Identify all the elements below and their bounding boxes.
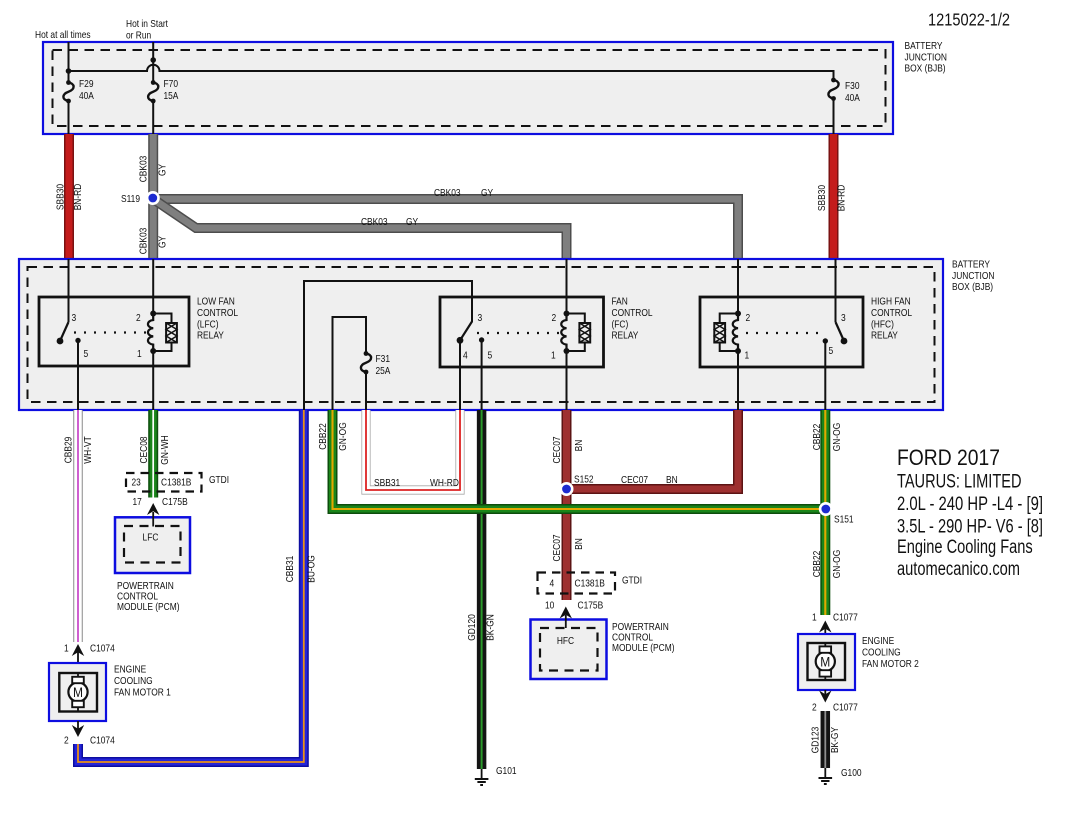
LFC actuation dotted line xyxy=(74,331,147,333)
svg-text:GD123: GD123 xyxy=(810,727,822,754)
wire: CBB22 branch to fuse F31 xyxy=(333,317,367,410)
cable SBB30 BN-RD left (F29 to LFC relay) xyxy=(64,134,74,259)
svg-text:GTDI: GTDI xyxy=(622,575,642,587)
wire: BJB internal to HFC pin 3 xyxy=(835,259,837,322)
svg-text:(HFC): (HFC) xyxy=(871,318,894,330)
wire: HFC pin1 to box edge xyxy=(737,351,739,410)
cable CBB22 GN-OG to fan motor 2 xyxy=(820,410,830,615)
fuse F70 15A xyxy=(148,80,158,103)
cable CBB31 BU-OG (FC relay to fan motor 1) xyxy=(78,410,304,762)
battery junction box 2 (BJB) outline xyxy=(19,259,943,410)
svg-text:WH-VT: WH-VT xyxy=(82,436,94,464)
svg-text:GN-OG: GN-OG xyxy=(337,422,349,451)
HFC switch arm pin3 xyxy=(836,322,845,341)
wire: arrow shaft to PCM LFC xyxy=(152,512,154,527)
svg-text:S119: S119 xyxy=(121,193,140,205)
svg-text:4: 4 xyxy=(550,578,555,590)
svg-text:MODULE (PCM): MODULE (PCM) xyxy=(612,642,675,654)
svg-text:2: 2 xyxy=(746,312,751,324)
svg-text:5: 5 xyxy=(829,345,834,357)
wire: HFC pin5 to box edge xyxy=(824,341,826,410)
wire: F31 to SBB31 out xyxy=(365,372,367,410)
svg-text:CEC07: CEC07 xyxy=(551,436,563,463)
svg-text:GN-WH: GN-WH xyxy=(159,435,171,464)
fan motor M1 (engine cooling fan motor 1) xyxy=(49,663,106,721)
svg-text:S151: S151 xyxy=(834,514,854,526)
svg-text:GD120: GD120 xyxy=(466,614,478,641)
svg-text:5: 5 xyxy=(488,350,493,362)
svg-text:LOW FAN: LOW FAN xyxy=(197,296,235,308)
HFC pin 5 terminal xyxy=(823,338,828,343)
svg-text:GY: GY xyxy=(406,216,418,228)
wire: motor1 to C1074 pin2 xyxy=(77,721,79,731)
svg-text:5: 5 xyxy=(84,348,89,360)
svg-text:WH-RD: WH-RD xyxy=(430,477,459,489)
svg-text:C1077: C1077 xyxy=(833,702,858,714)
connector C1381B dashed box (GTDI) left xyxy=(126,473,202,492)
svg-text:HIGH FAN: HIGH FAN xyxy=(871,296,911,308)
svg-text:40A: 40A xyxy=(845,92,860,104)
PCM LFC inner dashed box xyxy=(124,526,181,563)
wire: motor2 to C1077 pin2 xyxy=(824,690,826,697)
wire: BJB internal to LFC pin 3 xyxy=(68,259,70,322)
svg-text:CONTROL: CONTROL xyxy=(197,307,238,319)
svg-text:CBK03: CBK03 xyxy=(138,228,150,255)
cable CEC07 BN from HFC pin1 to S152 xyxy=(567,410,739,489)
svg-text:3.5L - 290 HP- V6 - [8]: 3.5L - 290 HP- V6 - [8] xyxy=(897,517,1043,538)
svg-text:Engine Cooling Fans: Engine Cooling Fans xyxy=(897,537,1033,558)
node: F70 feed junction xyxy=(150,57,156,63)
svg-text:40A: 40A xyxy=(79,90,94,102)
svg-text:FORD 2017: FORD 2017 xyxy=(897,445,1000,470)
wire: BJB internal to LFC pin 2 xyxy=(152,259,154,314)
svg-text:BU-OG: BU-OG xyxy=(306,555,318,583)
svg-text:RELAY: RELAY xyxy=(871,330,898,342)
svg-text:BATTERY: BATTERY xyxy=(952,259,990,271)
svg-text:COOLING: COOLING xyxy=(114,675,153,687)
svg-text:G100: G100 xyxy=(841,767,862,779)
svg-text:BN: BN xyxy=(573,538,585,550)
cable SBB30 BN-RD right (F30 to HFC relay) xyxy=(829,134,839,259)
svg-text:1215022-1/2: 1215022-1/2 xyxy=(928,10,1010,30)
wire: bus from F29 to F30 with hop over F70 xyxy=(69,65,834,80)
svg-text:10: 10 xyxy=(545,600,554,612)
LFC coil with resistor xyxy=(148,311,177,355)
splice S152 xyxy=(560,482,574,496)
svg-text:BN: BN xyxy=(666,474,678,486)
svg-text:1: 1 xyxy=(812,612,817,624)
svg-text:1: 1 xyxy=(745,350,750,362)
svg-text:BK-GY: BK-GY xyxy=(829,727,841,753)
wire: feed to fuse F29 xyxy=(68,42,70,83)
svg-text:FAN: FAN xyxy=(612,296,628,308)
svg-text:2: 2 xyxy=(812,702,817,714)
HFC switch contact xyxy=(841,338,848,345)
arrow into PCM (HFC) xyxy=(560,607,572,619)
ground G100 xyxy=(819,768,833,784)
svg-text:CEC07: CEC07 xyxy=(621,474,648,486)
svg-text:Hot in Start: Hot in Start xyxy=(126,18,168,30)
svg-text:F29: F29 xyxy=(79,78,94,90)
wire: Hot in Start feed to fuse F70 xyxy=(152,42,154,83)
svg-text:1: 1 xyxy=(137,348,142,360)
svg-text:Hot at all times: Hot at all times xyxy=(35,29,91,41)
svg-text:17: 17 xyxy=(133,496,142,508)
svg-text:GTDI: GTDI xyxy=(209,474,229,486)
svg-text:2: 2 xyxy=(64,735,69,747)
svg-text:C175B: C175B xyxy=(162,496,188,508)
LFC pin 5 terminal xyxy=(75,338,80,343)
svg-text:HFC: HFC xyxy=(557,635,575,647)
svg-text:CBB29: CBB29 xyxy=(63,437,75,464)
connector arrow C1074 pin2 xyxy=(72,725,84,737)
fuse F31 25A xyxy=(361,351,371,374)
svg-text:2: 2 xyxy=(136,312,141,324)
HFC actuation dotted line xyxy=(746,332,818,334)
svg-text:C1074: C1074 xyxy=(90,735,115,747)
fuse F30 40A xyxy=(828,78,838,101)
wire: LFC pin5 to box edge xyxy=(77,341,79,411)
svg-text:CEC07: CEC07 xyxy=(551,534,563,561)
relay FC (fan control) xyxy=(440,297,604,410)
PCM HFC inner dashed box xyxy=(540,628,598,671)
wire: C1077 pin1 to motor 2 xyxy=(824,627,826,634)
relay HFC (high fan control) xyxy=(700,297,863,410)
svg-text:CBK03: CBK03 xyxy=(434,187,461,199)
LFC switch arm pin3 xyxy=(60,322,69,341)
cable CBB29 WH-VT to fan motor 1 xyxy=(73,410,83,642)
svg-text:BN-RD: BN-RD xyxy=(836,184,848,211)
svg-text:F30: F30 xyxy=(845,80,860,92)
svg-text:C175B: C175B xyxy=(578,600,604,612)
svg-text:C1381B: C1381B xyxy=(161,477,191,489)
svg-text:1: 1 xyxy=(551,350,556,362)
splice S119 xyxy=(146,191,160,205)
svg-text:4: 4 xyxy=(463,350,468,362)
svg-text:BK-GN: BK-GN xyxy=(485,614,497,641)
BJB2 inner dashed border xyxy=(28,267,935,402)
FC coil with resistor xyxy=(561,311,590,355)
wire: BJB internal to HFC pin 2 xyxy=(737,259,739,314)
svg-text:GY: GY xyxy=(157,164,169,176)
svg-text:(FC): (FC) xyxy=(612,318,629,330)
svg-text:(LFC): (LFC) xyxy=(197,318,219,330)
FC pin 4 contact xyxy=(457,337,464,344)
cable GD120 BK-GN to ground G101 xyxy=(477,410,487,769)
svg-text:CBB31: CBB31 xyxy=(284,556,296,583)
wire: CBB22 bus overpass xyxy=(440,504,826,514)
svg-text:FAN MOTOR 2: FAN MOTOR 2 xyxy=(862,658,919,670)
LFC switch contact xyxy=(57,338,64,345)
FC actuation dotted line xyxy=(477,332,560,334)
connector C1381B dashed box (GTDI) right xyxy=(538,573,616,594)
svg-text:SBB30: SBB30 xyxy=(816,185,828,211)
fuse F29 40A xyxy=(63,80,73,103)
svg-text:M: M xyxy=(73,685,83,700)
svg-text:S152: S152 xyxy=(574,474,594,486)
svg-text:25A: 25A xyxy=(376,365,391,377)
svg-text:CBK03: CBK03 xyxy=(361,216,388,228)
fan motor M2 (engine cooling fan motor 2) xyxy=(798,634,855,690)
svg-text:TAURUS: LIMITED: TAURUS: LIMITED xyxy=(897,472,1022,493)
svg-text:CBB22: CBB22 xyxy=(811,551,823,578)
cable SBB31 WH-RD (F31 to FC pin 4) xyxy=(366,410,460,490)
svg-text:C1381B: C1381B xyxy=(575,578,605,590)
FC pin 5 terminal xyxy=(479,337,484,342)
svg-text:15A: 15A xyxy=(164,90,179,102)
svg-text:CONTROL: CONTROL xyxy=(871,307,912,319)
svg-text:BOX (BJB): BOX (BJB) xyxy=(905,63,946,75)
svg-text:CONTROL: CONTROL xyxy=(612,307,653,319)
svg-text:3: 3 xyxy=(841,312,846,324)
battery junction box 1 (BJB) outline xyxy=(43,42,893,134)
svg-text:GN-OG: GN-OG xyxy=(831,550,843,579)
svg-text:C1077: C1077 xyxy=(833,612,858,624)
cable CBK03 GY vertical (F70 to LFC relay) xyxy=(148,134,158,259)
svg-text:GY: GY xyxy=(481,187,493,199)
svg-text:COOLING: COOLING xyxy=(862,647,901,659)
cable CBK03 GY branch to FC... HFC relay pin2 xyxy=(153,199,738,259)
wire: FC pin1 to box edge xyxy=(566,351,568,410)
wire: FC pin4 to box edge xyxy=(459,340,461,410)
BJB1 inner dashed border xyxy=(53,50,886,126)
connector arrow C1074 pin1 xyxy=(72,644,84,656)
wire: F70 out to box edge xyxy=(152,101,154,134)
svg-text:BN: BN xyxy=(573,440,585,452)
wire: C1074 pin1 to motor 1 xyxy=(77,650,79,663)
cable GD123 BK-GY to ground G100 xyxy=(821,711,831,768)
svg-text:F31: F31 xyxy=(376,353,391,365)
svg-text:G101: G101 xyxy=(496,765,517,777)
svg-text:or Run: or Run xyxy=(126,30,151,42)
cable CEC07 BN from FC pin1 to PCM HFC xyxy=(562,410,572,600)
node: F29 bus junction xyxy=(66,68,72,74)
HFC coil with resistor xyxy=(714,311,741,355)
cable CBK03 GY branch to FC relay pin2 xyxy=(153,199,566,259)
svg-text:BOX (BJB): BOX (BJB) xyxy=(952,281,993,293)
wire: F30 out to box edge xyxy=(833,99,835,135)
svg-text:SBB31: SBB31 xyxy=(374,477,400,489)
svg-text:FAN MOTOR 1: FAN MOTOR 1 xyxy=(114,687,171,699)
svg-text:RELAY: RELAY xyxy=(612,330,639,342)
svg-text:MODULE (PCM): MODULE (PCM) xyxy=(117,601,180,613)
svg-text:JUNCTION: JUNCTION xyxy=(952,270,995,282)
wire: F29 out to box edge xyxy=(68,101,70,134)
svg-text:2: 2 xyxy=(552,312,557,324)
svg-text:C1074: C1074 xyxy=(90,643,115,655)
svg-text:2.0L - 240 HP -L4 - [9]: 2.0L - 240 HP -L4 - [9] xyxy=(897,494,1043,515)
wire: FC pin5 to box edge xyxy=(481,340,483,410)
svg-text:ENGINE: ENGINE xyxy=(114,664,146,676)
svg-text:F70: F70 xyxy=(164,78,179,90)
svg-text:1: 1 xyxy=(64,643,69,655)
svg-text:automecanico.com: automecanico.com xyxy=(897,559,1020,580)
svg-text:CEC08: CEC08 xyxy=(138,436,150,463)
connector arrow C1077 pin1 xyxy=(819,621,831,633)
svg-text:CBB22: CBB22 xyxy=(317,423,329,450)
svg-text:BN-RD: BN-RD xyxy=(72,183,84,210)
relay LFC (low fan control) xyxy=(39,297,189,410)
svg-text:CBB22: CBB22 xyxy=(811,424,823,451)
cable CBB22 GN-OG bus to S151 xyxy=(333,410,827,509)
wire: arrow shaft to PCM HFC xyxy=(565,615,567,628)
PCM box (HFC) xyxy=(531,620,607,680)
wire: FC pin 3 feed from CBB31 xyxy=(304,281,472,410)
svg-text:3: 3 xyxy=(72,312,77,324)
svg-text:JUNCTION: JUNCTION xyxy=(905,51,948,63)
ground G101 xyxy=(475,769,489,785)
wire: LFC pin1 to box edge xyxy=(152,351,154,410)
svg-text:3: 3 xyxy=(478,312,483,324)
FC switch arm pin3 xyxy=(460,322,472,341)
svg-text:GY: GY xyxy=(157,236,169,248)
svg-text:ENGINE: ENGINE xyxy=(862,635,894,647)
wire: BJB internal to FC pin 2 xyxy=(566,259,568,314)
svg-text:GN-OG: GN-OG xyxy=(831,423,843,452)
svg-text:SBB30: SBB30 xyxy=(55,184,67,210)
splice S151 xyxy=(819,502,833,516)
cable CEC08 GN-WH to PCM xyxy=(148,410,158,498)
svg-text:M: M xyxy=(820,655,830,670)
svg-text:BATTERY: BATTERY xyxy=(905,40,943,52)
svg-text:CBK03: CBK03 xyxy=(138,156,150,183)
PCM box (LFC) xyxy=(115,517,190,573)
svg-text:23: 23 xyxy=(132,477,141,489)
svg-text:RELAY: RELAY xyxy=(197,330,224,342)
svg-text:LFC: LFC xyxy=(143,532,159,544)
connector arrow C1077 pin2 xyxy=(819,691,831,703)
arrow into PCM (LFC) xyxy=(147,503,159,515)
